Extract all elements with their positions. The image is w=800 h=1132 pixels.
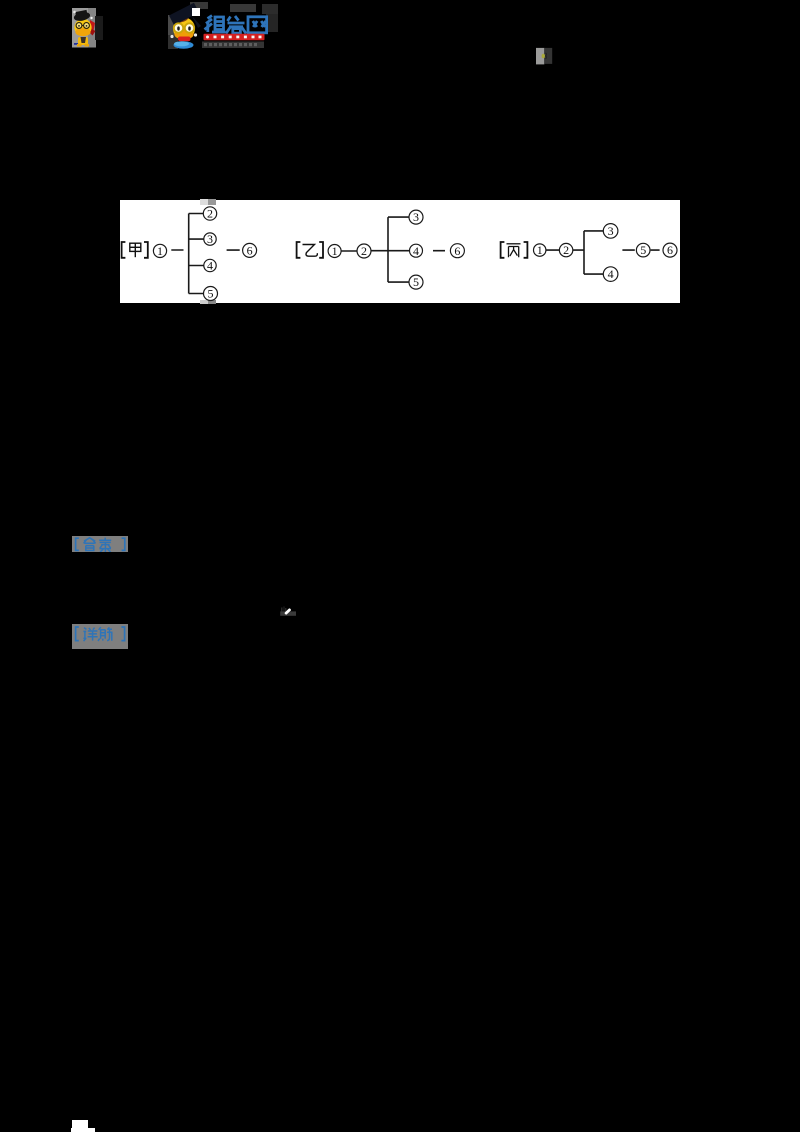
svg-text:3: 3 xyxy=(608,224,614,238)
svg-text:1: 1 xyxy=(537,243,543,257)
svg-text:2: 2 xyxy=(563,243,569,257)
svg-text:3: 3 xyxy=(413,210,419,224)
svg-text:5: 5 xyxy=(413,275,419,289)
svg-text:4: 4 xyxy=(207,258,213,272)
svg-text:4: 4 xyxy=(608,267,614,281)
svg-text:6: 6 xyxy=(454,243,460,257)
svg-text:5: 5 xyxy=(640,243,646,257)
svg-text:3: 3 xyxy=(207,232,213,246)
svg-text:4: 4 xyxy=(413,243,419,257)
svg-text:2: 2 xyxy=(361,244,367,258)
svg-text:1: 1 xyxy=(332,244,338,258)
svg-text:6: 6 xyxy=(247,243,253,257)
svg-text:5: 5 xyxy=(208,286,214,300)
svg-text:6: 6 xyxy=(667,243,673,257)
svg-text:2: 2 xyxy=(207,206,213,220)
svg-text:1: 1 xyxy=(157,244,163,258)
